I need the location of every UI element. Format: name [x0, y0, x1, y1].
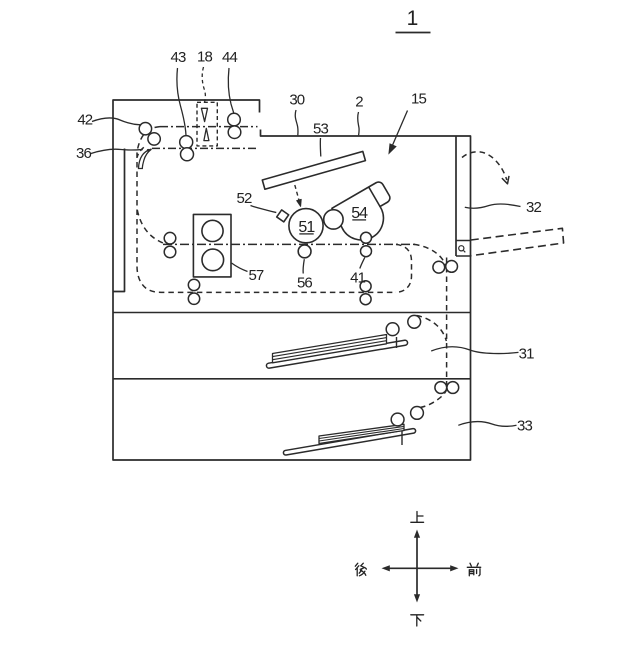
exposure light dashed arrow: [295, 185, 300, 203]
right cover 32 inner wall: [455, 136, 457, 256]
tray separator line (top of cassette 31 zone): [113, 312, 471, 314]
cutter lower blade: [204, 128, 209, 140]
media path: outer curve into right vertical (dashed): [414, 244, 447, 271]
tray separator line (top of cassette 33 zone): [113, 378, 471, 380]
exposure unit 53: [262, 151, 365, 189]
underline of figure number: [396, 32, 431, 34]
compass label up (kanji ue): [411, 512, 424, 523]
svg-text:18: 18: [197, 49, 212, 66]
roller pair 43: [180, 136, 193, 149]
compass vertical arrow: [416, 535, 418, 599]
underline of 51: [299, 233, 313, 235]
roller pair 41 upper: [361, 232, 372, 243]
leader 36: [91, 149, 143, 153]
leader 32: [465, 204, 521, 208]
underline of 54: [352, 219, 366, 221]
leader 43: [177, 68, 186, 136]
tray 31 paper stack: [273, 335, 387, 363]
media path: tray 33 pickup arc (dashed): [420, 389, 447, 408]
svg-text:52: 52: [237, 190, 252, 207]
tray 31 end stop: [396, 337, 398, 348]
cutter upper blade: [201, 108, 207, 121]
leader 53: [319, 138, 322, 157]
leader 18 (dashed): [202, 67, 205, 102]
registration roller pair: [164, 232, 176, 244]
tray 31 pickup roller: [386, 323, 399, 336]
compass horizontal arrow: [386, 567, 453, 569]
media path: lower top path through roller 43 (dash-dot): [152, 147, 259, 149]
svg-text:57: 57: [248, 267, 263, 284]
tray 33 pickup roller: [391, 413, 404, 426]
cassette trays: [266, 315, 423, 455]
feed roller pair between trays: [435, 382, 447, 394]
output tray (dashed parallelogram): [471, 228, 564, 255]
exit box roller: [459, 246, 464, 251]
developing unit 54 body: [332, 182, 390, 240]
svg-text:32: 32: [526, 199, 541, 216]
exit box top: [456, 240, 471, 242]
fixing roller lower: [202, 249, 224, 271]
leader 57: [232, 263, 248, 272]
leader 44: [228, 68, 234, 113]
media path: left side S-curve and bottom run (dashed): [137, 127, 395, 293]
svg-text:30: 30: [289, 92, 304, 109]
inner left wall: [113, 149, 125, 292]
media path: registration branch curve (dashed): [137, 210, 165, 244]
svg-text:44: 44: [222, 49, 237, 66]
svg-text:42: 42: [77, 112, 92, 129]
developing unit cap divider: [369, 187, 380, 207]
svg-text:36: 36: [76, 145, 91, 162]
roller pair 41 lower: [360, 281, 371, 292]
media path: main horizontal process path (dash-dot): [163, 243, 415, 245]
developing roller: [324, 210, 343, 229]
leader lines: [91, 67, 521, 426]
media path: tray 31 pickup arc (dashed): [417, 316, 447, 342]
arrow 15: [392, 111, 408, 148]
svg-text:33: 33: [517, 418, 532, 435]
leader 52: [251, 206, 277, 213]
exit box bottom: [456, 255, 471, 257]
compass label rear (kanji ushiro): [355, 563, 366, 576]
flap 36: [139, 149, 152, 169]
leader 56: [303, 259, 304, 273]
media path: inner duplex U-turn (dashed): [395, 244, 412, 292]
exit roller pair: [433, 261, 445, 273]
svg-text:2: 2: [355, 94, 363, 111]
cutter dashed frame: [197, 102, 217, 146]
photosensitive drum 51: [289, 209, 323, 243]
compass label down (kanji shita): [411, 615, 424, 626]
print engine: [193, 151, 389, 277]
roller pair 44: [228, 113, 241, 126]
transfer roller 56: [298, 245, 311, 258]
tray 31 plate: [266, 340, 408, 369]
tray 33 plate: [283, 428, 416, 455]
leader 42: [92, 118, 140, 125]
media path: flap top connector (dashed): [137, 147, 144, 157]
tray 33 pickup roller: [411, 407, 424, 420]
svg-text:53: 53: [313, 121, 328, 138]
roller pair 42: [139, 123, 151, 135]
svg-text:1: 1: [407, 7, 419, 30]
leader 2: [358, 112, 359, 135]
fixing unit 57 frame: [193, 214, 231, 277]
svg-text:43: 43: [171, 49, 186, 66]
cutter unit 18: [197, 102, 217, 146]
svg-text:15: 15: [411, 90, 426, 107]
leader 31: [431, 347, 518, 354]
arrowhead of exit arc: [502, 176, 509, 184]
leader 30: [295, 110, 298, 135]
svg-text:56: 56: [297, 275, 312, 292]
compass label front (kanji mae): [467, 563, 480, 576]
svg-text:41: 41: [350, 270, 365, 287]
machine body outline: [113, 100, 471, 460]
tray 31 pickup roller: [408, 315, 421, 328]
direction compass: [382, 530, 459, 603]
svg-text:31: 31: [519, 345, 534, 362]
tray 33 end stop: [401, 431, 403, 445]
charger 52: [277, 210, 289, 222]
tray 33 paper stack: [319, 424, 404, 443]
media path: top feed path (dash-dot): [160, 126, 258, 128]
rollers: [139, 113, 459, 393]
leader 41: [360, 257, 365, 268]
media path: right vertical feed path (dashed): [446, 258, 448, 391]
media path: exit arc over cover 32 (dashed): [462, 152, 507, 180]
fixing roller upper: [202, 220, 223, 241]
roller pair below fuser: [188, 279, 199, 290]
leader 33: [458, 422, 516, 427]
